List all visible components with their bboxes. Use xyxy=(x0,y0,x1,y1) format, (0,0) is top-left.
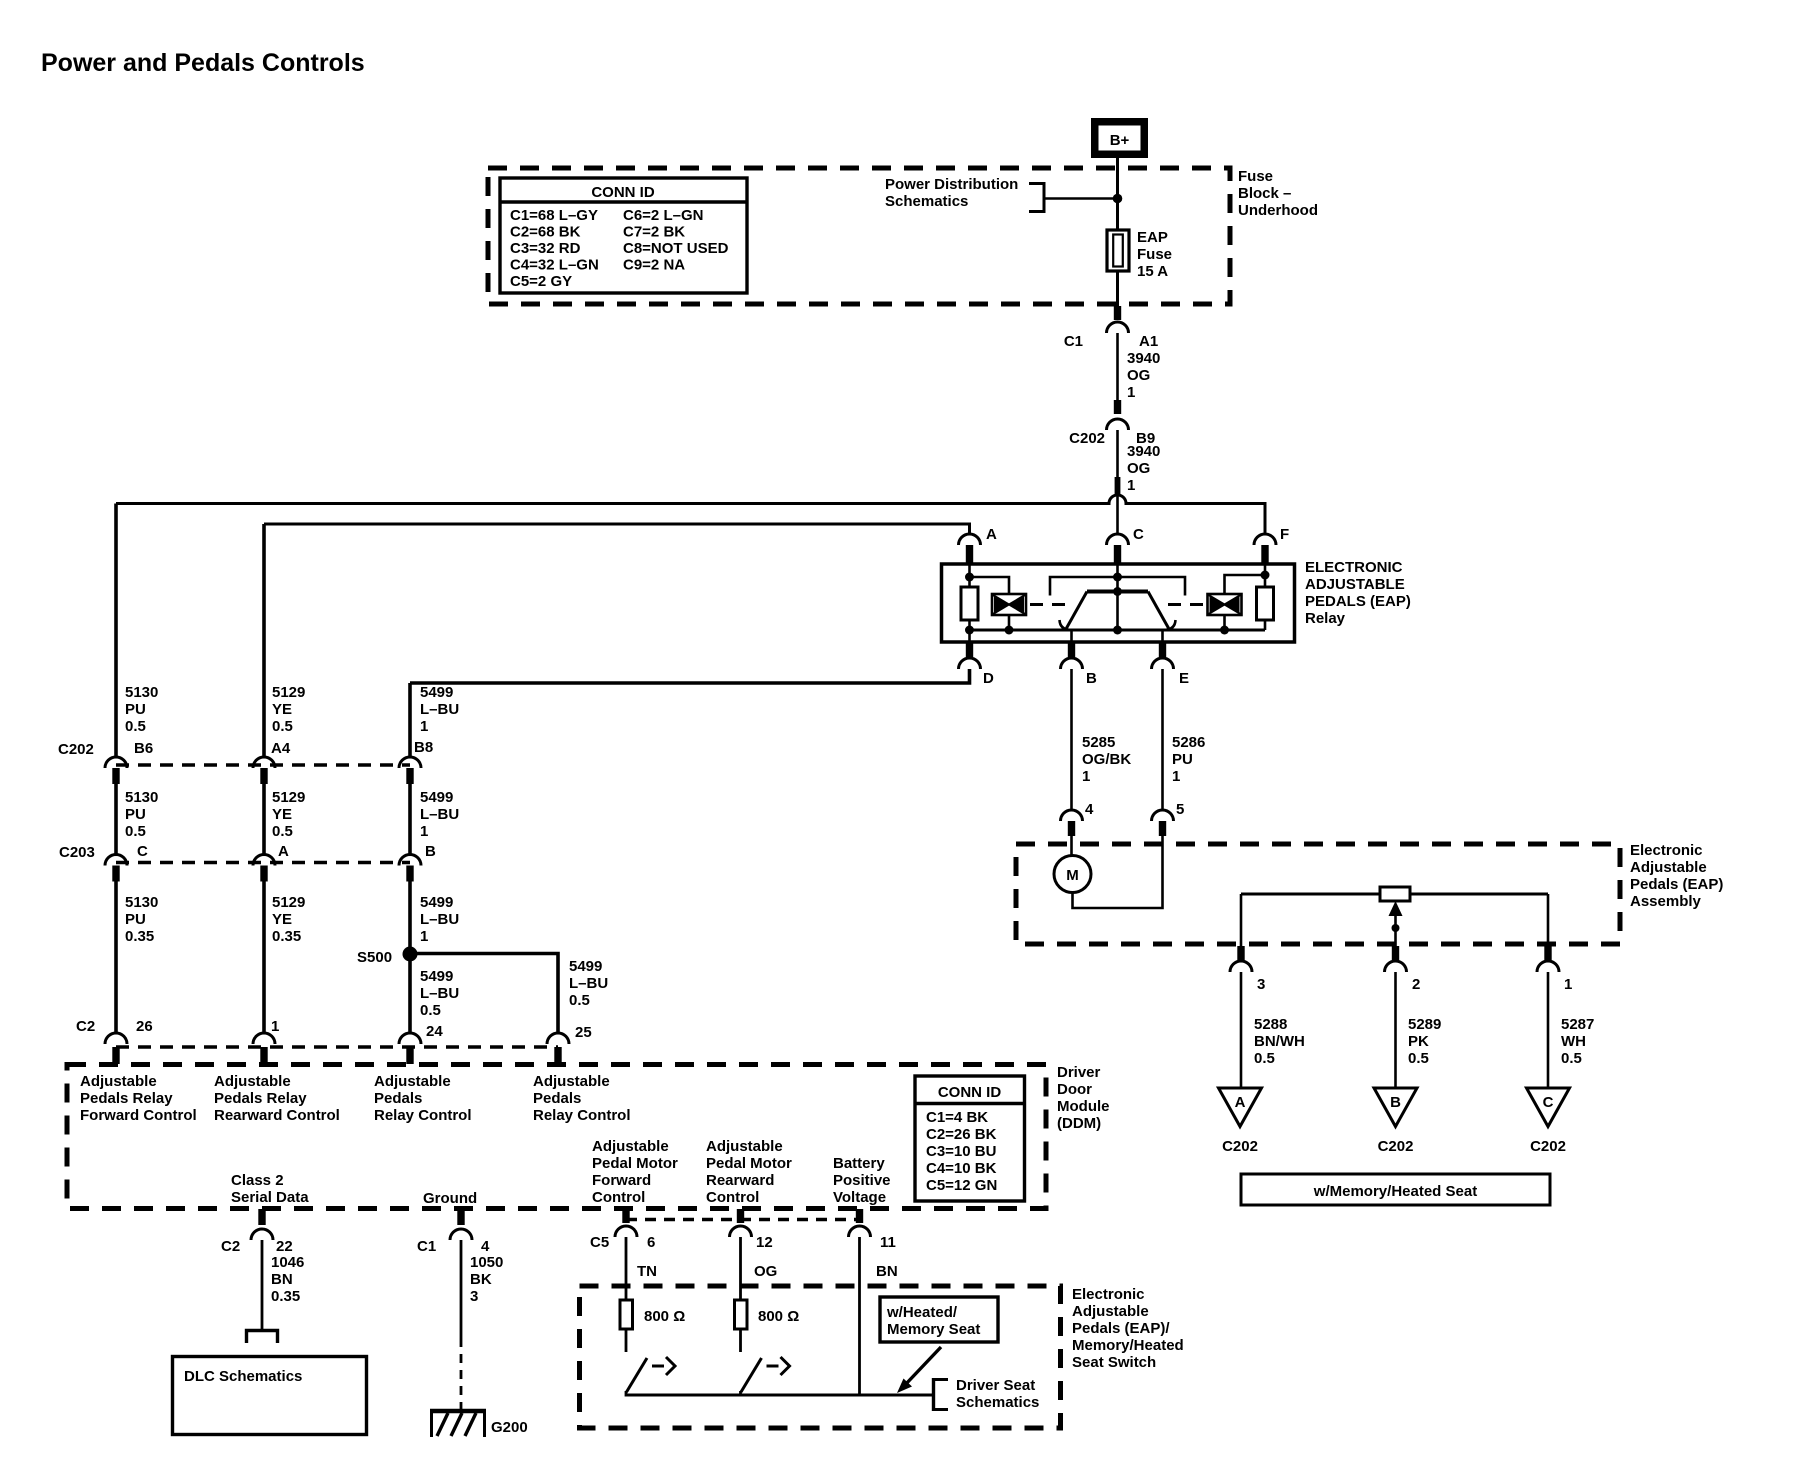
DDM connector C1 pin 4 (ground) xyxy=(417,1209,490,1255)
svg-text:1: 1 xyxy=(420,928,428,945)
svg-text:800 Ω: 800 Ω xyxy=(758,1308,799,1325)
svg-text:1: 1 xyxy=(271,1018,279,1035)
DDM connector C2 pin 26 xyxy=(105,1018,153,1064)
DDM label: Adjustable Pedals Relay Rearward Control xyxy=(214,1073,340,1124)
DDM label: Adjustable Pedals Relay Control (pin 24) xyxy=(374,1073,472,1124)
junction dot at B+ feed xyxy=(1113,194,1123,204)
svg-text:PU: PU xyxy=(1172,751,1193,768)
svg-text:Electronic: Electronic xyxy=(1630,842,1703,859)
svg-text:Ground: Ground xyxy=(423,1190,477,1207)
svg-text:Schematics: Schematics xyxy=(956,1394,1039,1411)
wire label 5499 L-BU 0.5 (pin 25 leg) xyxy=(569,958,608,1009)
wire label 5129 YE 0.35 xyxy=(272,894,305,945)
svg-text:F: F xyxy=(1280,526,1289,543)
svg-text:Adjustable: Adjustable xyxy=(592,1138,669,1155)
svg-text:Fuse: Fuse xyxy=(1238,168,1273,185)
resistor 800 ohm (rearward) xyxy=(735,1300,800,1329)
DDM connector C5 pin 6 xyxy=(615,1209,655,1251)
wire label 5130 PU 0.5 (upper) xyxy=(125,684,158,735)
DDM connector C2 pin 24 xyxy=(399,1023,443,1064)
svg-text:1: 1 xyxy=(420,823,428,840)
DDM connector C5 pin 11 xyxy=(849,1209,896,1251)
resistor (relay, left) xyxy=(961,587,978,620)
wire label 5499 L-BU 0.5 (pin 24 leg) xyxy=(420,968,459,1019)
svg-text:0.5: 0.5 xyxy=(272,823,293,840)
svg-text:Door: Door xyxy=(1057,1081,1092,1098)
svg-text:1: 1 xyxy=(1564,976,1572,993)
position sensor potentiometer track xyxy=(1241,887,1548,901)
arrow from note box to common rail xyxy=(897,1347,941,1393)
svg-text:3: 3 xyxy=(1257,976,1265,993)
resistor (relay, right) xyxy=(1257,587,1274,620)
svg-text:Adjustable: Adjustable xyxy=(706,1138,783,1155)
svg-text:C2=68 BK: C2=68 BK xyxy=(510,224,581,241)
wire: right resistor to ground rail xyxy=(1264,620,1267,630)
label: Electronic Adjustable Pedals (EAP) Assembly xyxy=(1630,842,1723,910)
svg-text:L–BU: L–BU xyxy=(420,701,459,718)
svg-text:BK: BK xyxy=(470,1271,492,1288)
svg-text:Driver: Driver xyxy=(1057,1064,1101,1081)
wire label 5129 YE 0.5 (upper) xyxy=(272,684,305,735)
svg-text:C6=2 L–GN: C6=2 L–GN xyxy=(623,207,703,224)
svg-text:PU: PU xyxy=(125,806,146,823)
DDM connector C2 pin 22 (class 2 serial data) xyxy=(221,1209,293,1255)
svg-text:3: 3 xyxy=(470,1288,478,1305)
svg-text:4: 4 xyxy=(1085,801,1094,818)
svg-text:5286: 5286 xyxy=(1172,734,1205,751)
label: ELECTRONIC ADJUSTABLE PEDALS (EAP) Relay xyxy=(1305,559,1411,627)
svg-text:Pedal Motor: Pedal Motor xyxy=(592,1155,678,1172)
svg-text:C3=10 BU: C3=10 BU xyxy=(926,1143,996,1160)
wire label 5130 PU 0.35 xyxy=(125,894,158,945)
svg-text:C202: C202 xyxy=(1069,430,1105,447)
svg-text:S500: S500 xyxy=(357,949,392,966)
svg-text:C2=26 BK: C2=26 BK xyxy=(926,1126,997,1143)
svg-text:YE: YE xyxy=(272,911,292,928)
svg-text:C202: C202 xyxy=(1222,1138,1258,1155)
connector C203 pin C xyxy=(105,843,148,882)
DDM label: Class 2 Serial Data xyxy=(231,1172,309,1206)
note box: w/Heated/Memory Seat xyxy=(880,1297,998,1342)
relay pin D connector xyxy=(959,642,995,687)
svg-text:5499: 5499 xyxy=(420,894,453,911)
armature linkage bracket xyxy=(1050,577,1185,596)
connector C202 pin A4 xyxy=(253,740,291,784)
svg-text:5285: 5285 xyxy=(1082,734,1115,751)
wire: pot right end to pin 1 xyxy=(1547,894,1550,946)
wire label 5286 PU 1 xyxy=(1172,734,1205,785)
ground G200 xyxy=(430,1411,528,1437)
svg-text:C: C xyxy=(1543,1094,1554,1111)
svg-text:C4=32 L–GN: C4=32 L–GN xyxy=(510,257,599,274)
svg-text:2: 2 xyxy=(1412,976,1420,993)
junction dot C on linkage xyxy=(1113,573,1122,582)
svg-text:Pedal Motor: Pedal Motor xyxy=(706,1155,792,1172)
wire 5499 L-BU 0.5: S500 branch to DDM pin 25 xyxy=(410,954,558,1034)
wire label 5288 BN/WH 0.5 xyxy=(1254,1016,1305,1067)
svg-text:5288: 5288 xyxy=(1254,1016,1287,1033)
svg-text:Assembly: Assembly xyxy=(1630,893,1702,910)
svg-text:0.5: 0.5 xyxy=(272,718,293,735)
svg-text:1050: 1050 xyxy=(470,1254,503,1271)
conn id table (fuse block) xyxy=(500,178,747,293)
wire 5286 PU: relay E to EAP pin 5 xyxy=(1161,669,1164,810)
svg-text:A: A xyxy=(278,843,289,860)
svg-text:5499: 5499 xyxy=(420,789,453,806)
svg-text:Adjustable: Adjustable xyxy=(80,1073,157,1090)
DDM label: Adjustable Pedal Motor Rearward Control xyxy=(706,1138,792,1206)
dashed actuator line to coil 2 xyxy=(1168,603,1206,606)
battery positive B+ terminal xyxy=(1091,118,1148,158)
svg-text:5130: 5130 xyxy=(125,894,158,911)
label: Power Distribution Schematics xyxy=(885,176,1018,210)
wire 5129 YE: C203 to DDM pin 1 xyxy=(262,882,266,1034)
DDM label: Adjustable Pedals Relay Control (pin 25) xyxy=(533,1073,631,1124)
svg-text:Rearward: Rearward xyxy=(706,1172,774,1189)
connector C203 pin B xyxy=(399,843,436,882)
potentiometer wiper arrow xyxy=(1389,901,1403,946)
svg-text:B: B xyxy=(425,843,436,860)
svg-text:Fuse: Fuse xyxy=(1137,246,1172,263)
svg-text:OG: OG xyxy=(1127,460,1150,477)
svg-text:BN/WH: BN/WH xyxy=(1254,1033,1305,1050)
svg-text:0.5: 0.5 xyxy=(1254,1050,1275,1067)
svg-text:6: 6 xyxy=(647,1234,655,1251)
svg-text:3940: 3940 xyxy=(1127,350,1160,367)
wire 5499 L-BU: C202 to C203 xyxy=(408,784,412,855)
svg-text:C2: C2 xyxy=(221,1238,240,1255)
DDM connector C2 pin 25 xyxy=(547,1024,592,1064)
wire: A node to coil 1 xyxy=(970,577,1010,594)
svg-text:5289: 5289 xyxy=(1408,1016,1441,1033)
svg-text:ELECTRONIC: ELECTRONIC xyxy=(1305,559,1403,576)
wire: relay control feed from DDM pin 26 to relay pin F (with hop over C wire) xyxy=(116,495,1265,534)
connector C202 row dashed link xyxy=(116,763,410,767)
relay coil K2 (right winding) xyxy=(1208,594,1242,615)
svg-text:TN: TN xyxy=(637,1263,657,1280)
wire: resistor to ground rail xyxy=(968,620,971,630)
wire: relay pin C internal (common feed) xyxy=(1116,564,1119,630)
svg-text:C: C xyxy=(1133,526,1144,543)
fuse EAP 15 A xyxy=(1107,229,1172,280)
label: Electronic Adjustable Pedals (EAP)/ Memory/Heated Seat Switch xyxy=(1072,1286,1184,1371)
EAP assembly pin 4 connector xyxy=(1061,801,1095,836)
wire 5130 PU: C203 to DDM pin 26 xyxy=(114,882,118,1034)
svg-text:Block –: Block – xyxy=(1238,185,1291,202)
DDM label: Adjustable Pedals Relay Forward Control xyxy=(80,1073,197,1124)
svg-text:1: 1 xyxy=(1127,477,1135,494)
svg-text:A4: A4 xyxy=(271,740,291,757)
EAP assembly pin 5 connector xyxy=(1152,801,1185,836)
svg-text:0.5: 0.5 xyxy=(1561,1050,1582,1067)
wire 5129 YE: column 2 from feed line to C202 A4 xyxy=(262,524,266,757)
DDM label: Battery Positive Voltage xyxy=(833,1155,891,1206)
svg-text:Power Distribution: Power Distribution xyxy=(885,176,1018,193)
relay pin A connector xyxy=(959,526,998,564)
svg-text:Pedals: Pedals xyxy=(374,1090,422,1107)
svg-text:25: 25 xyxy=(575,1024,592,1041)
EAP assembly pin 3 connector xyxy=(1230,946,1265,993)
svg-text:Rearward Control: Rearward Control xyxy=(214,1107,340,1124)
DDM connector C2 pin 1 xyxy=(253,1018,279,1064)
svg-text:M: M xyxy=(1066,867,1079,884)
svg-text:5130: 5130 xyxy=(125,684,158,701)
svg-text:Pedals (EAP): Pedals (EAP) xyxy=(1630,876,1723,893)
svg-text:Class 2: Class 2 xyxy=(231,1172,284,1189)
svg-text:15 A: 15 A xyxy=(1137,263,1168,280)
svg-text:G200: G200 xyxy=(491,1419,528,1436)
svg-text:OG: OG xyxy=(754,1263,777,1280)
svg-text:Schematics: Schematics xyxy=(885,193,968,210)
DDM label: Adjustable Pedal Motor Forward Control xyxy=(592,1138,678,1206)
svg-text:C5=12 GN: C5=12 GN xyxy=(926,1177,997,1194)
svg-text:11: 11 xyxy=(880,1234,896,1251)
wire: motor return loop to pin 5 xyxy=(1073,836,1163,908)
svg-text:L–BU: L–BU xyxy=(420,806,459,823)
wire: switch common rail xyxy=(626,1394,934,1397)
wire label 5499 L-BU 1 (lower) xyxy=(420,894,459,945)
svg-text:1: 1 xyxy=(420,718,428,735)
svg-text:C202: C202 xyxy=(1530,1138,1566,1155)
wire: relay pin F internal xyxy=(1264,564,1267,587)
wire 5499 L-BU: C203 to splice S500 xyxy=(408,882,412,1034)
wire 5129 YE: C202 to C203 xyxy=(262,784,266,855)
svg-text:EAP: EAP xyxy=(1137,229,1168,246)
wire: C1 to C202 xyxy=(1116,333,1119,400)
EAP assembly dashed box xyxy=(1016,844,1620,944)
off-page triangle B to C202 xyxy=(1374,1088,1417,1155)
bracket to power distribution schematics xyxy=(1029,182,1044,213)
wire label 5499 L-BU 1 (middle) xyxy=(420,789,459,840)
wire 1050 BK: ground lead xyxy=(460,1240,463,1338)
svg-text:5499: 5499 xyxy=(420,968,453,985)
wire: B9 down to relay pin C (crosses feed line with hop) xyxy=(1115,430,1121,534)
svg-text:5499: 5499 xyxy=(569,958,602,975)
svg-text:E: E xyxy=(1179,670,1189,687)
svg-text:C5: C5 xyxy=(590,1234,609,1251)
svg-text:YE: YE xyxy=(272,701,292,718)
svg-text:A: A xyxy=(1235,1094,1246,1111)
svg-text:0.35: 0.35 xyxy=(125,928,154,945)
switch blade (forward, momentary) xyxy=(626,1329,675,1397)
wire: pin 4 into motor xyxy=(1070,836,1073,855)
svg-text:(DDM): (DDM) xyxy=(1057,1115,1101,1132)
svg-text:Seat Switch: Seat Switch xyxy=(1072,1354,1156,1371)
wire OG: pin 12 to switch xyxy=(741,1237,778,1300)
note box: w/Memory/Heated Seat xyxy=(1241,1174,1550,1205)
svg-text:B: B xyxy=(1086,670,1097,687)
svg-text:0.35: 0.35 xyxy=(271,1288,300,1305)
svg-text:C1: C1 xyxy=(417,1238,436,1255)
svg-text:B6: B6 xyxy=(134,740,153,757)
svg-text:800 Ω: 800 Ω xyxy=(644,1308,685,1325)
wire label 5287 WH 0.5 xyxy=(1561,1016,1594,1067)
off-page triangle A to C202 xyxy=(1219,1088,1262,1155)
svg-text:BN: BN xyxy=(876,1263,898,1280)
svg-text:Adjustable: Adjustable xyxy=(214,1073,291,1090)
relay coil K1 (left winding) xyxy=(992,594,1026,615)
motor M (pedal adjust motor) xyxy=(1054,856,1091,893)
splice S500 xyxy=(357,947,418,967)
wire BN: pin 11 to switch common xyxy=(860,1237,898,1395)
wire: rail to relay pin D xyxy=(968,630,971,642)
wire label 5129 YE 0.5 (middle) xyxy=(272,789,305,840)
wire label 5499 L-BU 1 (upper) xyxy=(420,684,459,735)
svg-text:YE: YE xyxy=(272,806,292,823)
svg-text:Control: Control xyxy=(592,1189,645,1206)
svg-text:C: C xyxy=(137,843,148,860)
wire: relay control feed from DDM pin 1 to relay pin A xyxy=(264,524,970,534)
svg-text:PK: PK xyxy=(1408,1033,1429,1050)
svg-text:3940: 3940 xyxy=(1127,443,1160,460)
svg-text:Module: Module xyxy=(1057,1098,1110,1115)
svg-text:Voltage: Voltage xyxy=(833,1189,886,1206)
svg-text:Pedals: Pedals xyxy=(533,1090,581,1107)
svg-text:OG: OG xyxy=(1127,367,1150,384)
svg-text:Memory Seat: Memory Seat xyxy=(887,1321,980,1338)
wire: coil 2 top to F node xyxy=(1225,575,1266,594)
junction node F-internal xyxy=(1261,571,1270,580)
svg-text:1: 1 xyxy=(1082,768,1090,785)
relay pin F connector xyxy=(1254,526,1289,564)
wire label 1050 BK 3 xyxy=(470,1254,503,1305)
connector C1 pin A1 (fuse block output) xyxy=(1064,306,1158,350)
wire label 3940 OG 1 (segment B9) xyxy=(1127,443,1160,494)
svg-text:Driver Seat: Driver Seat xyxy=(956,1377,1035,1394)
DDM connector C5 row dashed link xyxy=(626,1218,860,1221)
resistor 800 ohm (forward) xyxy=(620,1300,685,1329)
contact pivot hook B xyxy=(1060,620,1071,630)
svg-text:5130: 5130 xyxy=(125,789,158,806)
connector C203 pin A xyxy=(253,843,289,882)
dashed continuation of ground lead xyxy=(460,1338,463,1409)
wire: coil 2 to ground rail xyxy=(1223,615,1226,630)
relay EAP box xyxy=(942,564,1295,642)
svg-text:C202: C202 xyxy=(58,741,94,758)
off-page fork to DLC schematics xyxy=(247,1331,278,1344)
svg-text:12: 12 xyxy=(756,1234,773,1251)
svg-text:5: 5 xyxy=(1176,801,1184,818)
svg-text:PU: PU xyxy=(125,911,146,928)
svg-text:5499: 5499 xyxy=(420,684,453,701)
connector C2 row dashed link xyxy=(116,1045,558,1049)
wire label 3940 OG 1 (segment A1) xyxy=(1127,350,1160,401)
svg-text:C9=2 NA: C9=2 NA xyxy=(623,257,685,274)
label: Driver Seat Schematics xyxy=(956,1377,1039,1411)
contact pivot hook E xyxy=(1165,620,1176,630)
wire: B+ down to fuse xyxy=(1116,158,1119,230)
svg-text:A1: A1 xyxy=(1139,333,1158,350)
svg-text:Pedals Relay: Pedals Relay xyxy=(80,1090,173,1107)
svg-text:Forward Control: Forward Control xyxy=(80,1107,197,1124)
svg-text:22: 22 xyxy=(276,1238,293,1255)
svg-text:Serial Data: Serial Data xyxy=(231,1189,309,1206)
svg-text:PU: PU xyxy=(125,701,146,718)
junction node A-internal xyxy=(965,573,974,582)
svg-text:5129: 5129 xyxy=(272,789,305,806)
wire 1046 BN: class 2 serial data xyxy=(261,1240,264,1330)
svg-text:4: 4 xyxy=(481,1238,490,1255)
svg-text:0.5: 0.5 xyxy=(569,992,590,1009)
svg-text:B: B xyxy=(1390,1094,1401,1111)
driver door module DDM dashed box xyxy=(67,1065,1046,1209)
svg-text:Control: Control xyxy=(706,1189,759,1206)
svg-text:w/Heated/: w/Heated/ xyxy=(886,1304,958,1321)
relay pin B connector xyxy=(1061,642,1098,687)
label: Fuse Block - Underhood xyxy=(1238,168,1318,219)
EAP assembly pin 1 connector xyxy=(1537,946,1572,993)
svg-text:Adjustable: Adjustable xyxy=(533,1073,610,1090)
wire 5130 PU: C202 to C203 xyxy=(114,784,118,855)
svg-text:D: D xyxy=(983,670,994,687)
wire: relay pin D to column 3 (L-BU) xyxy=(410,669,970,683)
wire: coil 1 to ground rail xyxy=(1008,615,1011,630)
svg-text:Electronic: Electronic xyxy=(1072,1286,1145,1303)
fuse block underhood dashed box xyxy=(488,168,1230,304)
relay pin C connector xyxy=(1107,526,1145,564)
wire 5289 PK: pin 2 to triangle B xyxy=(1394,972,1397,1088)
svg-text:1046: 1046 xyxy=(271,1254,304,1271)
svg-text:5129: 5129 xyxy=(272,894,305,911)
svg-text:Relay: Relay xyxy=(1305,610,1346,627)
wire 5285 OG/BK: relay B to EAP pin 4 xyxy=(1070,669,1073,810)
svg-text:Adjustable: Adjustable xyxy=(374,1073,451,1090)
svg-text:C7=2 BK: C7=2 BK xyxy=(623,224,685,241)
svg-text:1: 1 xyxy=(1172,768,1180,785)
wire: contact B to box bottom xyxy=(1070,629,1073,642)
svg-text:BN: BN xyxy=(271,1271,293,1288)
svg-text:Underhood: Underhood xyxy=(1238,202,1318,219)
svg-text:ADJUSTABLE: ADJUSTABLE xyxy=(1305,576,1405,593)
svg-text:WH: WH xyxy=(1561,1033,1586,1050)
DLC Schematics box xyxy=(173,1357,367,1435)
EAP memory/heated seat switch dashed box xyxy=(580,1286,1061,1428)
connector C203 row dashed link xyxy=(116,861,410,865)
svg-text:Relay Control: Relay Control xyxy=(533,1107,631,1124)
svg-text:C4=10 BK: C4=10 BK xyxy=(926,1160,997,1177)
svg-text:PEDALS (EAP): PEDALS (EAP) xyxy=(1305,593,1411,610)
svg-text:0.5: 0.5 xyxy=(420,1002,441,1019)
switch blade (rearward, momentary) xyxy=(741,1329,790,1397)
svg-text:C202: C202 xyxy=(1378,1138,1414,1155)
svg-text:C1=4 BK: C1=4 BK xyxy=(926,1109,988,1126)
svg-text:OG/BK: OG/BK xyxy=(1082,751,1131,768)
svg-text:L–BU: L–BU xyxy=(569,975,608,992)
wire 5287 WH: pin 1 to triangle C xyxy=(1547,972,1550,1088)
wire 5499 L-BU: column 3 from relay D to C202 B8 xyxy=(408,683,412,757)
connector C202 pin B9 xyxy=(1069,400,1155,447)
svg-text:C1: C1 xyxy=(1064,333,1083,350)
svg-text:24: 24 xyxy=(426,1023,443,1040)
EAP assembly pin 2 connector xyxy=(1385,946,1421,993)
svg-text:Forward: Forward xyxy=(592,1172,651,1189)
off-page bracket to driver seat schematics xyxy=(934,1378,949,1411)
svg-text:0.5: 0.5 xyxy=(125,718,146,735)
svg-text:B+: B+ xyxy=(1110,132,1130,149)
svg-text:Positive: Positive xyxy=(833,1172,891,1189)
movable contact armature bar xyxy=(1066,587,1169,629)
svg-text:C203: C203 xyxy=(59,844,95,861)
label: Driver Door Module (DDM) xyxy=(1057,1064,1110,1132)
svg-text:0.5: 0.5 xyxy=(125,823,146,840)
svg-text:C8=NOT USED: C8=NOT USED xyxy=(623,240,729,257)
connector C202 pin B8 xyxy=(399,739,433,784)
svg-text:C5=2 GY: C5=2 GY xyxy=(510,273,572,290)
svg-text:CONN ID: CONN ID xyxy=(938,1084,1002,1101)
svg-text:26: 26 xyxy=(136,1018,153,1035)
wire label 5285 OG/BK 1 xyxy=(1082,734,1131,785)
wire 5130 PU: column 1 from feed line to C202 B6 xyxy=(114,504,118,758)
